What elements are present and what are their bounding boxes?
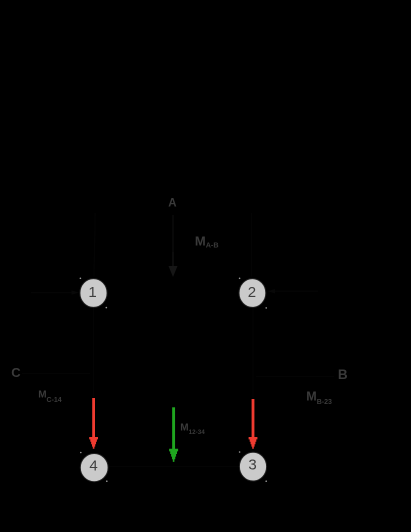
svg-text:2: 2 — [248, 284, 256, 301]
wire into node 1 from left (faint, arrowhead) — [31, 292, 72, 294]
svg-text:C: C — [11, 365, 21, 380]
wire node 2 down (faint) — [252, 308, 254, 399]
svg-text:3: 3 — [248, 457, 256, 474]
arrow A down (edge A to middle, faint black) — [169, 215, 178, 277]
node 3 corner specks — [239, 451, 241, 453]
wire node 1 down (faint) — [93, 308, 95, 398]
wire C to 1-4 line (faint) — [22, 373, 90, 375]
wire A to node 2 (faint) — [250, 213, 252, 277]
svg-text:1: 1 — [88, 284, 96, 301]
svg-text:A: A — [168, 197, 176, 209]
node 4 corner specks — [80, 452, 82, 454]
svg-text:4: 4 — [89, 458, 97, 475]
wire A to node 1 (faint) — [94, 213, 95, 277]
node 2 corner specks — [239, 278, 241, 280]
node 1 — [80, 279, 107, 308]
red arrow 1 to 4 — [89, 398, 98, 449]
wire B to 2-3 line (faint) — [256, 376, 334, 378]
green arrow 12 to 34 — [169, 407, 178, 462]
node 2 — [239, 279, 266, 308]
node 3 — [239, 452, 266, 481]
svg-text:B: B — [338, 367, 348, 382]
red arrow 2 to 3 — [249, 399, 258, 449]
wire node 4 to node 3 (faint) — [107, 466, 240, 468]
wire into node 2 from right (faint, arrowhead) — [275, 290, 318, 292]
node 1 corner specks — [80, 278, 82, 280]
node 4 — [80, 454, 108, 482]
